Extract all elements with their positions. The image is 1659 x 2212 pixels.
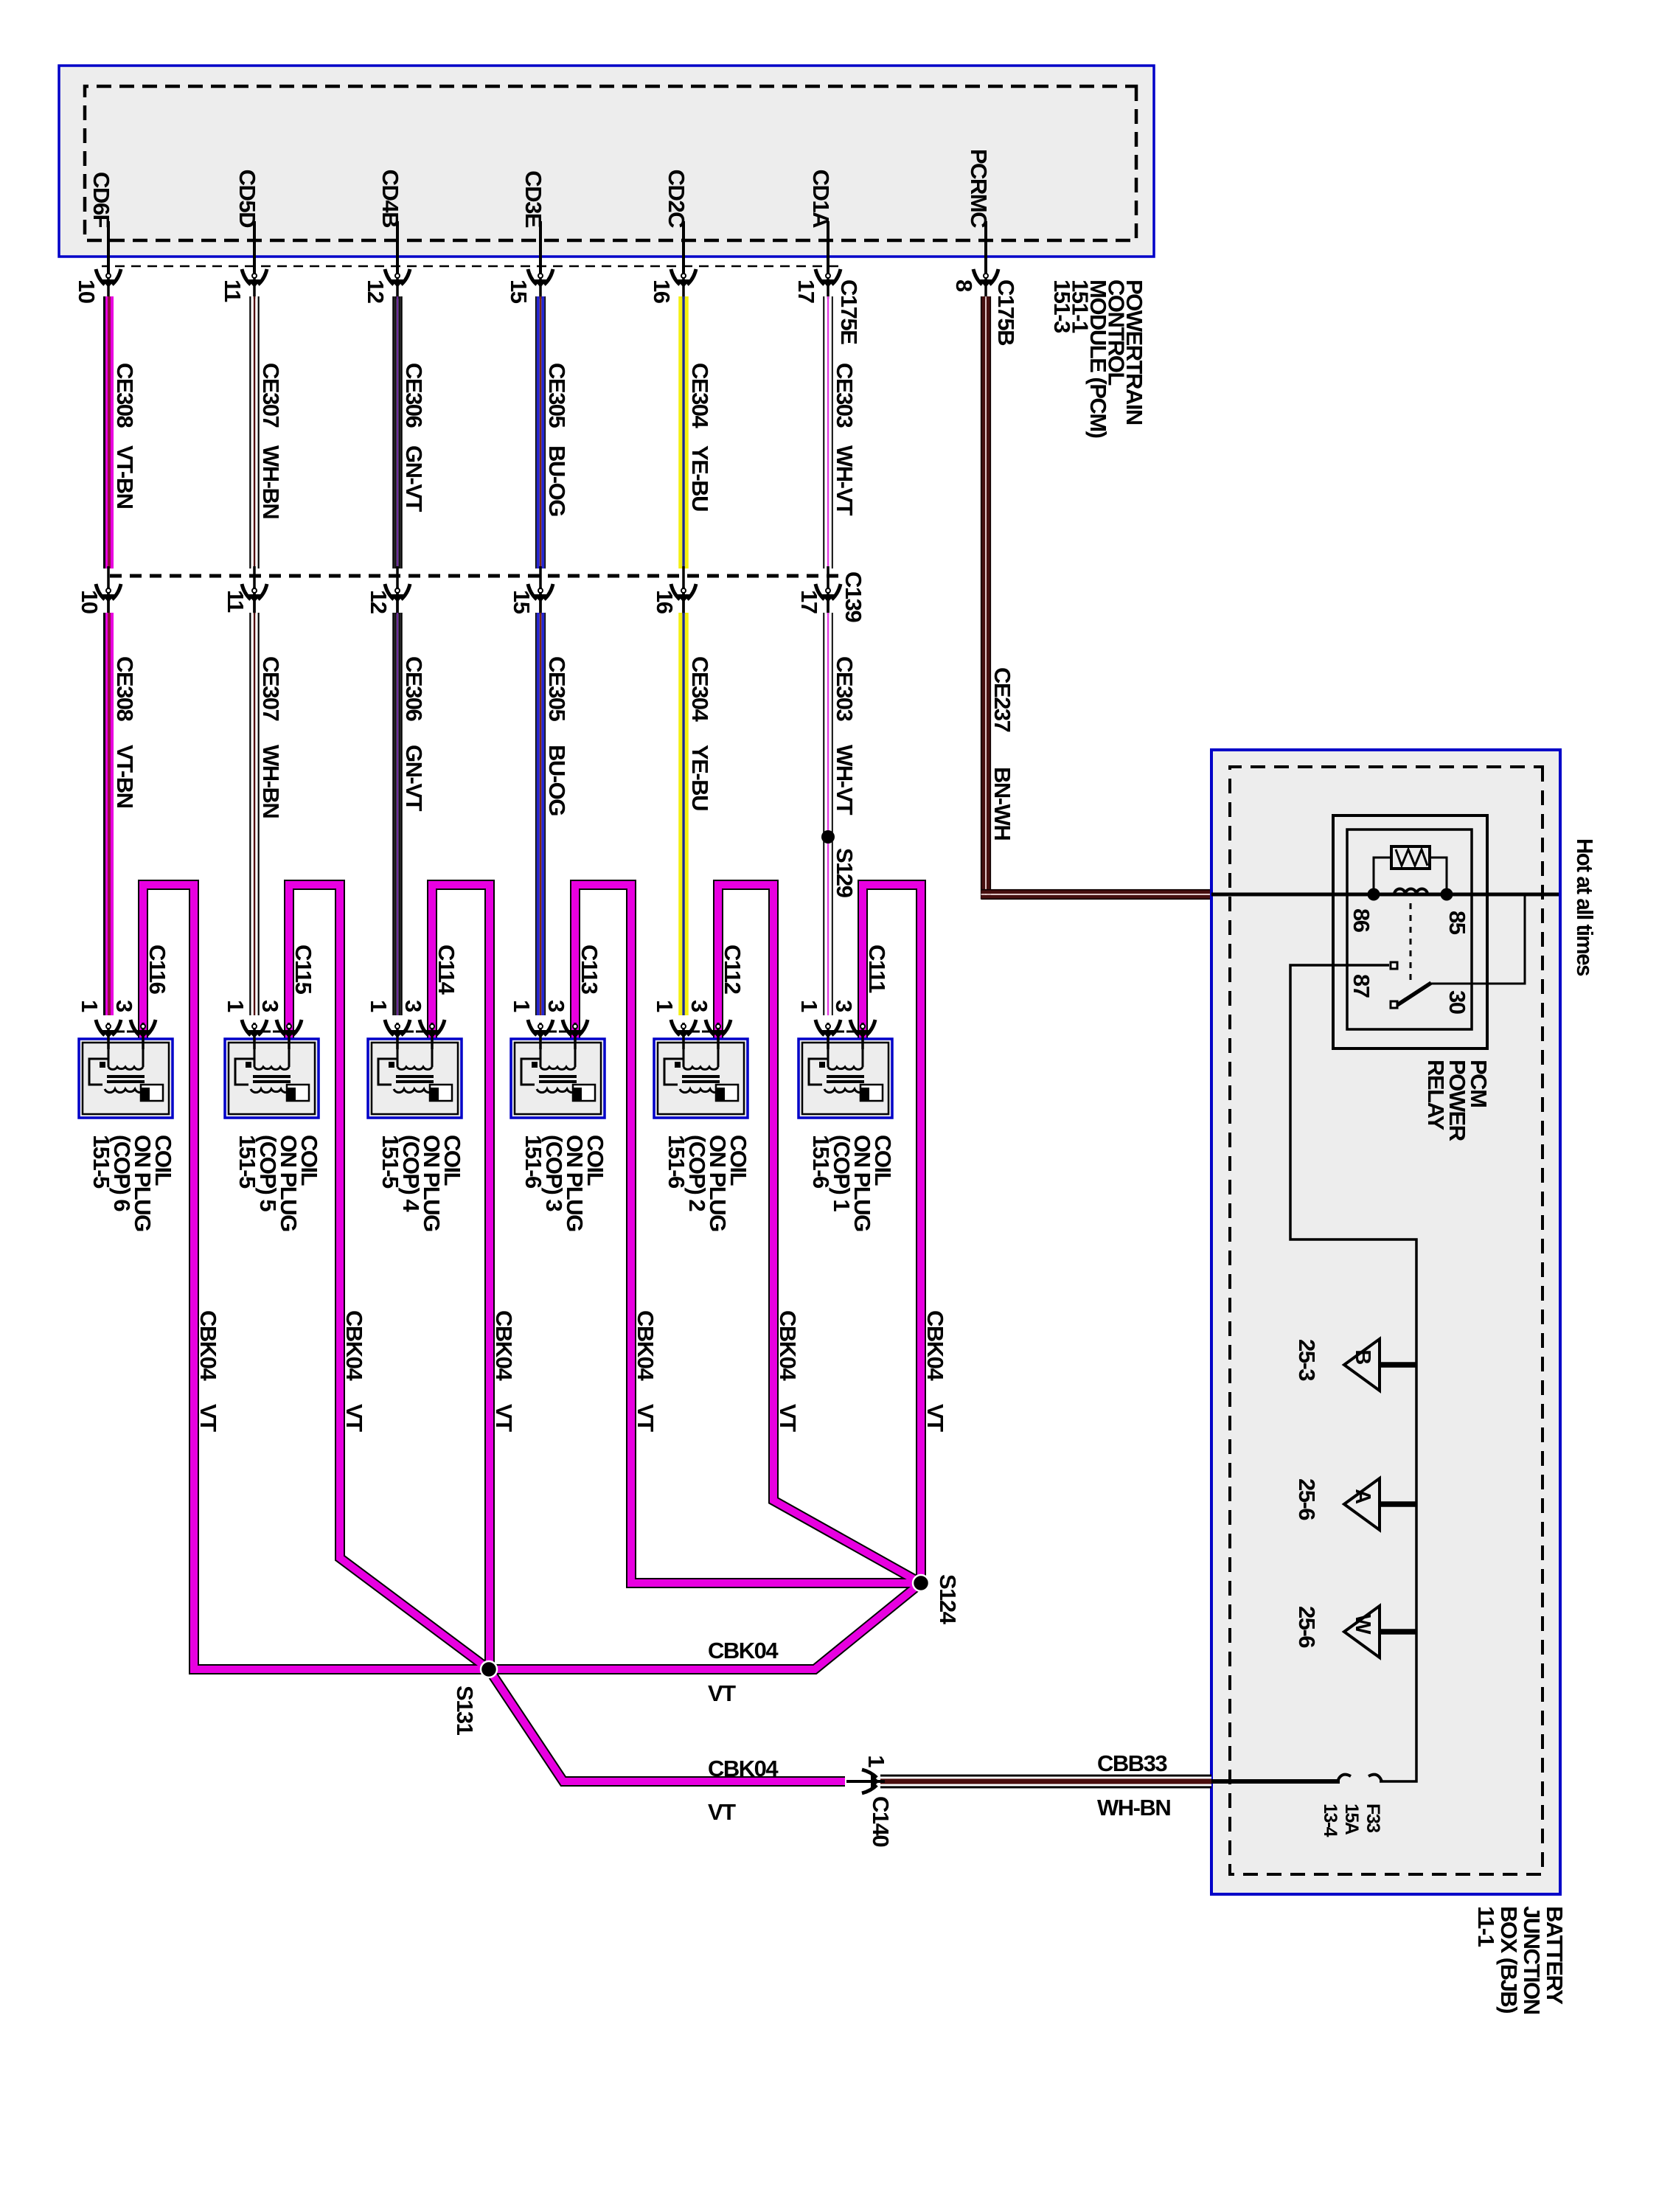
svg-text:C113: C113 (577, 945, 602, 995)
svg-text:CBK04: CBK04 (491, 1310, 517, 1381)
svg-text:C111: C111 (864, 945, 890, 993)
svg-text:CE304: CE304 (687, 656, 713, 723)
svg-text:16: 16 (649, 279, 675, 304)
svg-text:151-6: 151-6 (664, 1135, 689, 1189)
svg-text:CE237: CE237 (990, 667, 1015, 732)
svg-text:12: 12 (366, 590, 392, 613)
svg-text:3: 3 (543, 1000, 569, 1012)
svg-text:Hot at all times: Hot at all times (1572, 838, 1598, 975)
svg-text:VT: VT (491, 1404, 517, 1432)
svg-text:151-6: 151-6 (808, 1135, 834, 1189)
svg-text:CBK04: CBK04 (922, 1310, 948, 1381)
svg-text:3: 3 (400, 1000, 426, 1012)
svg-text:CE308: CE308 (112, 363, 138, 428)
svg-text:86: 86 (1349, 908, 1374, 933)
svg-text:CD1A: CD1A (808, 170, 834, 229)
svg-text:1: 1 (366, 1000, 392, 1012)
svg-text:15: 15 (506, 279, 532, 304)
svg-text:CBK04: CBK04 (708, 1638, 779, 1663)
svg-text:151-3: 151-3 (1049, 279, 1075, 333)
svg-text:CBK04: CBK04 (633, 1310, 658, 1381)
svg-text:W: W (1351, 1614, 1374, 1635)
svg-text:87: 87 (1349, 974, 1374, 998)
svg-text:WH-BN: WH-BN (258, 745, 284, 818)
svg-text:GN-VT: GN-VT (401, 745, 427, 812)
svg-text:11: 11 (220, 279, 246, 302)
svg-text:1: 1 (652, 1000, 678, 1012)
svg-text:BN-WH: BN-WH (990, 767, 1015, 840)
svg-text:C112: C112 (720, 945, 745, 994)
svg-text:S124: S124 (935, 1574, 961, 1625)
svg-text:CBK04: CBK04 (195, 1310, 221, 1381)
svg-text:C115: C115 (291, 945, 316, 995)
svg-text:BATTERY: BATTERY (1542, 1906, 1568, 2005)
svg-text:VT: VT (633, 1404, 658, 1432)
svg-text:CE308: CE308 (112, 656, 138, 722)
svg-text:13-4: 13-4 (1320, 1804, 1340, 1837)
svg-text:WH-BN: WH-BN (1097, 1795, 1170, 1820)
svg-text:B: B (1351, 1349, 1374, 1364)
svg-text:WH-VT: WH-VT (832, 445, 858, 516)
svg-text:CE307: CE307 (258, 656, 284, 721)
svg-text:VT: VT (775, 1404, 801, 1432)
svg-text:CE305: CE305 (544, 656, 570, 722)
svg-text:C175E: C175E (836, 279, 862, 344)
svg-text:BU-OG: BU-OG (544, 745, 570, 815)
svg-text:11: 11 (223, 590, 248, 613)
svg-text:151-5: 151-5 (378, 1135, 403, 1189)
svg-text:15: 15 (509, 590, 535, 614)
svg-text:CE306: CE306 (401, 656, 427, 722)
svg-text:25-6: 25-6 (1294, 1478, 1320, 1520)
svg-text:C140: C140 (868, 1796, 894, 1846)
svg-text:10: 10 (77, 590, 102, 613)
svg-text:CD4B: CD4B (378, 170, 403, 228)
svg-text:C114: C114 (434, 945, 459, 995)
svg-text:85: 85 (1444, 911, 1470, 935)
svg-text:3: 3 (831, 1000, 857, 1012)
svg-text:1: 1 (509, 1000, 535, 1012)
svg-text:17: 17 (796, 590, 822, 613)
svg-text:RELAY: RELAY (1423, 1060, 1449, 1131)
svg-text:VT-BN: VT-BN (112, 745, 138, 808)
svg-text:CE306: CE306 (401, 363, 427, 428)
svg-text:25-3: 25-3 (1294, 1339, 1320, 1381)
svg-text:A: A (1351, 1489, 1374, 1504)
svg-text:15A: 15A (1341, 1804, 1362, 1835)
svg-text:CD3E: CD3E (521, 170, 546, 228)
svg-text:17: 17 (793, 279, 819, 303)
svg-text:CBK04: CBK04 (708, 1756, 779, 1781)
svg-text:GN-VT: GN-VT (401, 445, 427, 512)
svg-text:3: 3 (257, 1000, 283, 1012)
svg-text:C116: C116 (145, 945, 170, 995)
svg-text:C139: C139 (841, 571, 866, 622)
svg-text:1: 1 (223, 1000, 248, 1012)
svg-text:S131: S131 (452, 1686, 478, 1736)
svg-text:S129: S129 (832, 848, 858, 898)
svg-text:VT: VT (708, 1680, 736, 1706)
svg-text:151-5: 151-5 (88, 1135, 114, 1189)
svg-text:CE303: CE303 (832, 656, 858, 722)
svg-text:10: 10 (74, 279, 100, 303)
svg-text:25-6: 25-6 (1294, 1606, 1320, 1648)
svg-text:YE-BU: YE-BU (687, 745, 713, 810)
svg-text:3: 3 (111, 1000, 137, 1012)
svg-text:BOX (BJB): BOX (BJB) (1496, 1906, 1522, 2013)
svg-text:16: 16 (652, 590, 678, 614)
svg-text:F33: F33 (1363, 1804, 1383, 1832)
svg-text:CE305: CE305 (544, 363, 570, 428)
svg-text:CBB33: CBB33 (1097, 1750, 1167, 1776)
svg-text:3: 3 (686, 1000, 712, 1012)
svg-text:1: 1 (863, 1755, 889, 1767)
svg-text:CE307: CE307 (258, 363, 284, 428)
svg-text:1: 1 (796, 1000, 822, 1012)
svg-text:CE304: CE304 (687, 363, 713, 429)
svg-text:YE-BU: YE-BU (687, 445, 713, 511)
svg-text:CD2C: CD2C (664, 170, 689, 229)
svg-text:1: 1 (77, 1000, 102, 1012)
svg-text:PCRMC: PCRMC (966, 149, 992, 228)
svg-text:WH-VT: WH-VT (832, 745, 858, 815)
svg-text:CBK04: CBK04 (341, 1310, 367, 1381)
svg-text:CD5D: CD5D (234, 170, 260, 229)
svg-text:VT: VT (922, 1404, 948, 1432)
svg-text:30: 30 (1444, 990, 1470, 1014)
svg-text:JUNCTION: JUNCTION (1519, 1906, 1545, 2014)
svg-text:C175B: C175B (993, 279, 1019, 345)
svg-text:CE303: CE303 (832, 363, 858, 428)
svg-text:BU-OG: BU-OG (544, 445, 570, 516)
svg-text:VT-BN: VT-BN (112, 445, 138, 509)
svg-text:8: 8 (951, 279, 977, 292)
svg-text:VT: VT (341, 1404, 367, 1432)
svg-text:151-5: 151-5 (234, 1135, 260, 1189)
svg-text:WH-BN: WH-BN (258, 445, 284, 518)
svg-text:VT: VT (195, 1404, 221, 1432)
svg-text:151-6: 151-6 (521, 1135, 546, 1189)
svg-text:CD6F: CD6F (88, 172, 114, 228)
svg-text:12: 12 (363, 279, 389, 303)
svg-text:VT: VT (708, 1799, 736, 1825)
svg-text:11-1: 11-1 (1473, 1906, 1499, 1947)
svg-text:CBK04: CBK04 (775, 1310, 801, 1381)
